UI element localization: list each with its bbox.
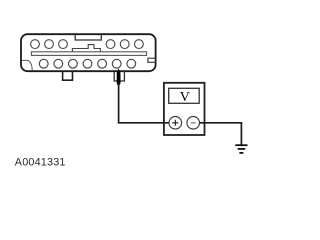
plus sign: [172, 120, 178, 126]
svg-text:V: V: [180, 90, 190, 105]
wire: voltmeter negative lead to ground: [200, 123, 242, 145]
connector inner corner chamfer (bottom-left): [22, 60, 32, 70]
bottom pin row: cavity 10: [83, 59, 92, 68]
connector key rail (stepped hat on slot): [72, 45, 100, 52]
voltmeter body: [164, 83, 205, 135]
probe arrow into pin: [117, 68, 121, 85]
voltmeter display window: [169, 88, 200, 103]
bottom pin row: cavity 7: [39, 59, 48, 68]
top pin row: cavity 3: [59, 40, 68, 49]
connector mounting tab (bottom right, around probe): [114, 71, 124, 81]
ground symbol: [235, 145, 247, 153]
top pin row: cavity 2: [45, 40, 54, 49]
connector keying notch (top center): [75, 35, 101, 40]
connector mounting tab (bottom left): [63, 71, 73, 80]
bottom pin row: cavity 12 (probed pin): [112, 59, 121, 68]
bottom pin row: cavity 11: [98, 59, 107, 68]
connector latch tab (right side): [148, 58, 156, 62]
voltmeter negative terminal: [187, 117, 200, 130]
top pin row: cavity 4: [106, 40, 115, 49]
bottom pin row: cavity 8: [54, 59, 63, 68]
top pin row: cavity 5: [120, 40, 129, 49]
connector pin slot: [31, 52, 146, 56]
bottom pin row: cavity 9: [69, 59, 78, 68]
top pin row: cavity 6: [135, 40, 144, 49]
bottom pin row: cavity 13: [127, 59, 136, 68]
svg-text:A0041331: A0041331: [15, 156, 66, 168]
minus sign: [191, 122, 196, 124]
wire: probe to voltmeter positive lead: [119, 83, 170, 123]
connector J1 housing: [21, 34, 156, 71]
voltmeter positive terminal: [169, 117, 182, 130]
top pin row: cavity 1: [31, 40, 40, 49]
